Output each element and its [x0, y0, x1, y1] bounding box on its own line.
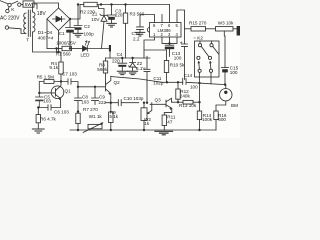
svg-text:C12: C12 [132, 31, 141, 36]
svg-text:18V: 18V [37, 11, 47, 17]
bottom rail [70, 129, 216, 131]
transistor Q1 [51, 86, 64, 99]
svg-text:5.1V: 5.1V [136, 66, 146, 71]
svg-text:Q1: Q1 [65, 88, 72, 93]
zener Z2 5.1V [130, 58, 136, 63]
capacitor C2 100p [74, 6, 82, 26]
svg-text:1000/25V: 1000/25V [56, 41, 77, 46]
capacitor C13 100 [165, 43, 174, 45]
capacitor C7 103 [61, 79, 78, 87]
pin 5 output wire [177, 10, 185, 44]
resistor R16 600 [214, 111, 218, 120]
svg-text:103: 103 [43, 99, 51, 104]
svg-text:Q3: Q3 [155, 97, 162, 102]
zener Z1 10V [99, 6, 109, 17]
resistor R13 10k [172, 101, 184, 103]
svg-text:C10 103p: C10 103p [124, 96, 144, 101]
capacitor C11 102p [144, 56, 150, 102]
capacitor C4 220 [118, 58, 127, 63]
svg-text:220: 220 [115, 13, 123, 18]
ground of C2 [73, 33, 83, 37]
microphone BM [220, 89, 232, 101]
svg-text:100: 100 [174, 56, 182, 61]
pin 7 wire [161, 15, 163, 23]
ground of C3 [107, 23, 117, 27]
resistor R5 1.5M [44, 80, 54, 84]
svg-text:R3 560: R3 560 [130, 12, 145, 17]
resistor R8 560k [105, 58, 107, 61]
ground of R6 [32, 129, 44, 133]
svg-text:R10 5k: R10 5k [170, 63, 185, 68]
ground of R11 [155, 131, 173, 135]
transformer T primary winding [24, 13, 26, 33]
potentiometer W3 10k [216, 27, 234, 31]
svg-text:Q2: Q2 [114, 80, 121, 85]
svg-text:10V: 10V [91, 17, 100, 22]
svg-text:C4: C4 [117, 52, 123, 57]
output coupling capacitor [180, 42, 182, 44]
capacitor C1 1000/25V [69, 18, 71, 20]
pin 8 wire [140, 15, 155, 23]
svg-text:C2: C2 [84, 24, 90, 29]
wire bridge left vertex down to negative rail [46, 19, 48, 49]
wire switch to fuse [21, 3, 23, 5]
ground of C4 [117, 71, 127, 74]
capacitor C14 100 [183, 78, 225, 84]
pins 2,3,4 wires [162, 37, 177, 43]
capacitor C8 103 [75, 87, 82, 112]
wire from corner to switch [0, 1, 8, 4]
resistor R9 5.1k [110, 103, 112, 112]
svg-text:C7 103: C7 103 [62, 72, 77, 77]
transformer T secondary winding [33, 12, 36, 32]
svg-text:R13 10k: R13 10k [179, 103, 197, 108]
fuse 5W [23, 1, 34, 7]
svg-text:5W: 5W [25, 2, 33, 7]
svg-text:1k: 1k [144, 121, 150, 126]
wire fuse to transformer [34, 4, 37, 9]
svg-text:C1: C1 [59, 31, 65, 36]
svg-text:102p: 102p [153, 80, 164, 85]
potentiometer W1 1k [88, 124, 102, 128]
resistor R2 220 [84, 2, 97, 6]
svg-text:220: 220 [112, 59, 120, 64]
pin 6 wire to +V rail [169, 5, 171, 23]
svg-text:C6 103: C6 103 [54, 109, 69, 114]
resistor R4 9.1k [57, 49, 62, 63]
svg-text:AC 220V: AC 220V [0, 16, 20, 22]
wire pin1 node to R10 [144, 49, 167, 51]
svg-text:600: 600 [218, 117, 226, 122]
junction bar after LED [109, 45, 111, 51]
resistor R6 4.7k [37, 108, 39, 115]
top rail +V [80, 4, 84, 6]
resistor R7 270 [77, 112, 79, 114]
negative rail with R1 [47, 48, 62, 50]
speaker terminal block [237, 26, 240, 36]
svg-text:2.2: 2.2 [133, 37, 140, 42]
svg-text:D1~D4: D1~D4 [38, 30, 53, 35]
svg-text:100: 100 [230, 70, 238, 75]
capacitor C5 103 [36, 93, 44, 108]
svg-text:C14: C14 [184, 73, 193, 78]
svg-text:T: T [26, 37, 29, 43]
svg-text:100: 100 [190, 85, 198, 90]
svg-text:R7 270: R7 270 [83, 107, 98, 112]
pin 1 wire [144, 37, 155, 58]
ground of C12 [135, 32, 145, 36]
svg-text:~ K2: ~ K2 [193, 36, 203, 41]
mid supply line [106, 57, 151, 59]
resistor R14 100k [199, 83, 201, 111]
collector line Q2 to C14 [111, 77, 183, 83]
IC U1 LM386 [150, 23, 182, 38]
svg-text:R15 270: R15 270 [189, 20, 207, 25]
svg-text:W1 1k: W1 1k [89, 114, 103, 119]
capacitor C9 222 [92, 87, 99, 105]
svg-text:240k: 240k [180, 94, 191, 99]
resistor R11 47 [162, 115, 166, 126]
capacitor C3 220 [108, 6, 116, 16]
svg-text:R5 1.5M: R5 1.5M [37, 74, 55, 79]
wire lower terminal to primary [9, 28, 26, 34]
transistor Q3 [150, 100, 166, 107]
capacitor C10 102p [106, 100, 139, 106]
bridge rectifier D1-D4 diamond [47, 8, 70, 31]
svg-text:100k: 100k [202, 117, 213, 122]
switch K [8, 3, 11, 6]
svg-text:C9: C9 [99, 95, 105, 100]
capacitor C12 2.2 [137, 15, 144, 32]
wire bridge right vertex to top rail [70, 5, 80, 20]
relay K2 contact box [195, 41, 220, 77]
LED diode [83, 46, 88, 51]
svg-text:Z1: Z1 [92, 11, 98, 16]
transformer core [28, 10, 30, 37]
svg-text:R1 560: R1 560 [56, 52, 71, 57]
svg-text:222: 222 [98, 100, 106, 105]
ground of Z2 [128, 71, 138, 74]
svg-text:4007×4: 4007×4 [38, 35, 54, 40]
resistor R10 5k [166, 50, 168, 61]
resistor R3 560 [125, 6, 127, 14]
svg-text:BM: BM [231, 103, 238, 108]
wire secondary bottom to bridge bottom [33, 31, 59, 53]
terminal upper AC [6, 9, 9, 12]
svg-text:560k: 560k [97, 67, 108, 72]
svg-text:9.1k: 9.1k [49, 65, 58, 70]
svg-text:5.1k: 5.1k [109, 114, 118, 119]
svg-text:47: 47 [167, 120, 173, 125]
svg-text:103: 103 [81, 99, 89, 104]
terminal lower AC [5, 26, 8, 29]
svg-text:100p: 100p [84, 31, 95, 36]
capacitor C15 100 [222, 66, 229, 68]
wire secondary top to bridge top [33, 3, 59, 12]
resistor R1 560 [62, 46, 72, 50]
svg-text:LED: LED [81, 52, 91, 57]
resistor R12 240k [177, 82, 179, 89]
potentiometer W2 1k [143, 103, 145, 108]
resistor R15 270 [185, 28, 192, 30]
bridge diode symbol [53, 16, 65, 21]
capacitor C6 103 [38, 105, 60, 110]
LED arrows [85, 41, 89, 46]
transistor Q2 [78, 82, 106, 91]
svg-text:R6 4.7k: R6 4.7k [40, 117, 57, 122]
svg-text:W3 10k: W3 10k [218, 20, 234, 25]
